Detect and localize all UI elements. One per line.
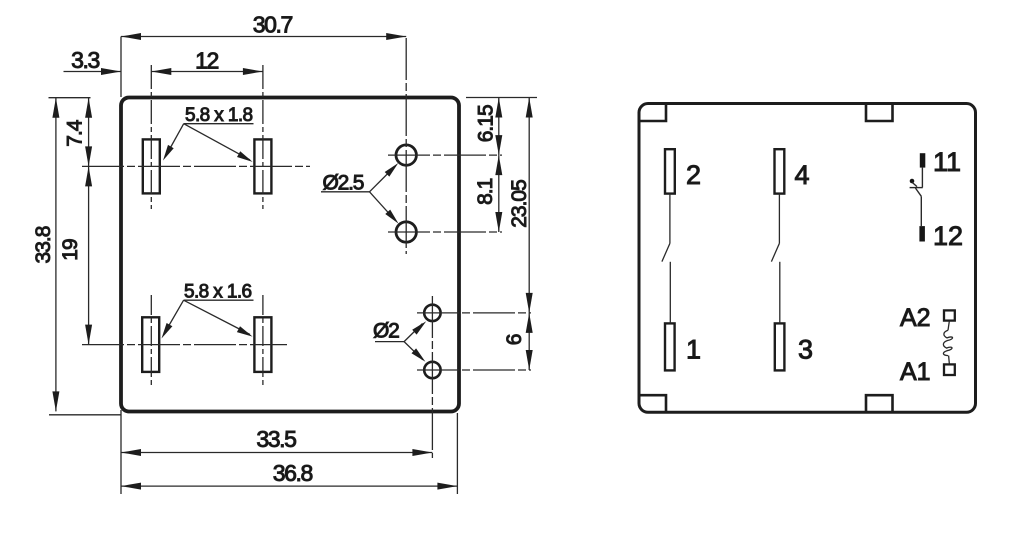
svg-text:12: 12 bbox=[933, 221, 963, 251]
centerline hole H4 (horizontal) bbox=[417, 369, 531, 371]
dimension 3.3 bbox=[64, 68, 122, 75]
centerline top slot row (horizontal) bbox=[82, 165, 310, 167]
mounting slot S4 (bottom-right 5.8x1.6) bbox=[254, 317, 271, 372]
centerline slot column left (vertical, top) bbox=[150, 65, 152, 209]
svg-text:5.8 x 1.6: 5.8 x 1.6 bbox=[184, 282, 252, 303]
svg-text:33.5: 33.5 bbox=[256, 426, 296, 452]
dimension 30.7 bbox=[121, 33, 406, 97]
coil bbox=[943, 321, 952, 365]
dimension 8.1 bbox=[495, 155, 502, 232]
relay body outline (bottom view) bbox=[639, 104, 976, 413]
centerline hole H3 (horizontal) bbox=[417, 312, 531, 314]
svg-text:Ø2.5: Ø2.5 bbox=[323, 171, 364, 194]
svg-text:A1: A1 bbox=[900, 358, 931, 386]
svg-text:11: 11 bbox=[933, 147, 961, 177]
svg-text:19: 19 bbox=[59, 239, 82, 261]
svg-text:A2: A2 bbox=[900, 304, 931, 332]
dimension 19 bbox=[85, 166, 92, 344]
svg-text:3: 3 bbox=[798, 335, 813, 365]
notch bottom-left bbox=[640, 395, 666, 412]
hole H2 (Ø2.5 lower) bbox=[396, 222, 416, 242]
dimension 33.8 bbox=[49, 98, 122, 415]
pin 2 bbox=[665, 149, 675, 193]
pin 1 bbox=[665, 323, 675, 370]
notch top-right bbox=[866, 104, 893, 121]
svg-text:6.15: 6.15 bbox=[475, 105, 498, 142]
pin 3 bbox=[775, 323, 785, 370]
svg-text:30.7: 30.7 bbox=[253, 12, 293, 38]
svg-text:2: 2 bbox=[686, 160, 701, 190]
centerline bottom slot row (horizontal) bbox=[82, 344, 287, 346]
footprint body outline bbox=[121, 98, 459, 412]
svg-text:3.3: 3.3 bbox=[71, 47, 99, 73]
mounting slot S2 (top-right 5.8x1.8) bbox=[254, 139, 271, 193]
svg-text:8.1: 8.1 bbox=[474, 178, 497, 205]
svg-text:5.8 x 1.8: 5.8 x 1.8 bbox=[185, 105, 253, 126]
hole H4 (Ø2 lower) bbox=[424, 362, 440, 378]
dimension 7.4 bbox=[85, 98, 92, 167]
dimension 12 bbox=[151, 68, 263, 75]
leader Ø2.5 bbox=[321, 163, 399, 224]
svg-text:4: 4 bbox=[795, 160, 810, 190]
svg-text:7.4: 7.4 bbox=[64, 119, 87, 147]
svg-text:12: 12 bbox=[195, 48, 218, 74]
centerline holes H3-H4 (vertical) bbox=[431, 296, 433, 458]
mounting slot S1 (top-left 5.8x1.8) bbox=[143, 139, 160, 193]
pin 11 bbox=[920, 153, 926, 167]
pin 12 bbox=[919, 226, 925, 241]
svg-text:33.8: 33.8 bbox=[32, 226, 55, 263]
centerline holes H1-H2 (vertical) bbox=[405, 38, 407, 254]
centerline hole H1 (horizontal) bbox=[388, 154, 502, 156]
notch top-left bbox=[640, 104, 666, 121]
leader 5.8 x 1.8 bbox=[163, 124, 254, 162]
centerline slot column right (vertical, top) bbox=[262, 65, 264, 209]
dimension 33.5 bbox=[121, 410, 432, 494]
notch bottom-right bbox=[866, 395, 893, 412]
hole H3 (Ø2 upper) bbox=[424, 305, 440, 321]
svg-text:1: 1 bbox=[686, 335, 701, 365]
contact 4-3 bbox=[771, 194, 779, 324]
coil terminal A2 bbox=[944, 310, 955, 320]
contact 11-12 bbox=[910, 168, 923, 227]
dimension 36.8 bbox=[121, 413, 457, 494]
svg-text:36.8: 36.8 bbox=[273, 460, 313, 486]
coil terminal A1 bbox=[944, 364, 955, 375]
centerline slot column left (vertical, bottom) bbox=[150, 295, 152, 387]
centerline hole H2 (horizontal) bbox=[388, 231, 502, 233]
contact 2-1 bbox=[662, 194, 670, 324]
dimension 6.15 bbox=[466, 98, 537, 156]
hole H1 (Ø2.5 upper) bbox=[396, 145, 416, 165]
svg-text:6: 6 bbox=[503, 334, 526, 345]
leader Ø2 bbox=[375, 321, 426, 362]
centerline slot column right (vertical, bottom) bbox=[262, 295, 264, 387]
leader 5.8 x 1.6 bbox=[162, 300, 254, 338]
mounting slot S3 (bottom-left 5.8x1.6) bbox=[142, 317, 159, 372]
svg-text:23.05: 23.05 bbox=[508, 180, 531, 228]
dimension 23.05 bbox=[526, 98, 533, 313]
svg-text:Ø2: Ø2 bbox=[373, 320, 399, 343]
dimension 6 bbox=[526, 313, 533, 370]
pin 4 bbox=[775, 149, 785, 193]
